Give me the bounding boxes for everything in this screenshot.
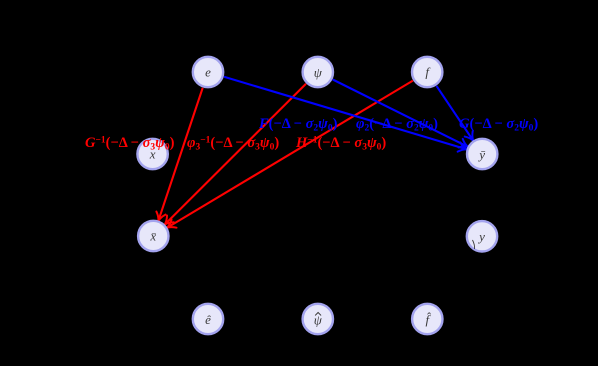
- svg-text:x̄: x̄: [149, 229, 156, 244]
- wire f to ybar (blue edge): [437, 86, 478, 143]
- node ybar: [467, 139, 497, 169]
- wire e to ybar (blue edge): [224, 77, 468, 154]
- node y: [467, 221, 497, 251]
- node psi: [303, 57, 333, 87]
- svg-text:y: y: [477, 229, 485, 244]
- svg-text:ȳ: ȳ: [477, 147, 485, 162]
- svg-text:e: e: [205, 65, 211, 80]
- svg-text:ψ: ψ: [314, 313, 323, 328]
- wire e to xbar (red edge): [154, 88, 203, 223]
- node f: [412, 57, 442, 87]
- svg-text:ê: ê: [205, 312, 211, 327]
- svg-text:ψ: ψ: [314, 65, 323, 80]
- node e: [193, 57, 223, 87]
- wire psi to ybar (blue edge): [333, 80, 470, 152]
- svg-text:F(−Δ − σ2ψ0): F(−Δ − σ2ψ0): [258, 116, 338, 134]
- svg-text:φ2(−Δ − σ2ψ0): φ2(−Δ − σ2ψ0): [356, 116, 438, 134]
- wire psi to xbar (red edge): [161, 84, 306, 228]
- node x: [137, 139, 167, 169]
- svg-text:G(−Δ − σ2ψ0): G(−Δ − σ2ψ0): [459, 116, 538, 134]
- node fhat: [412, 304, 442, 334]
- node psihat: [303, 304, 333, 334]
- node xbar: [138, 221, 168, 251]
- wire f to xbar (red edge): [165, 81, 413, 232]
- node ehat: [193, 304, 223, 334]
